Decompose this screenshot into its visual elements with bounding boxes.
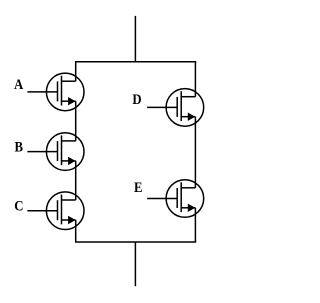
wire: bottom output lead <box>134 242 136 286</box>
wire: top supply lead <box>134 16 136 62</box>
svg-text:D: D <box>132 92 141 108</box>
svg-text:A: A <box>14 77 23 93</box>
wire: source of D to drain of E <box>194 117 196 188</box>
wire: top edge of network <box>75 61 196 63</box>
wire: source of C to bottom corner <box>75 220 77 242</box>
wire: source of A to drain of B <box>75 101 77 141</box>
svg-text:B: B <box>14 140 23 156</box>
svg-text:C: C <box>14 199 23 215</box>
transistor D (n-channel MOSFET) <box>147 89 204 127</box>
wire: bottom edge of network <box>75 241 196 243</box>
wire: left edge, top corner to drain of A <box>75 62 77 81</box>
transistor B (n-channel MOSFET) <box>27 133 84 171</box>
wire: right edge, top corner to drain of D <box>194 62 196 97</box>
wire: source of E to bottom corner <box>194 208 196 242</box>
wire: source of B to drain of C <box>75 161 77 200</box>
svg-text:E: E <box>134 180 143 196</box>
transistor A (n-channel MOSFET) <box>27 73 84 111</box>
transistor E (n-channel MOSFET) <box>147 180 204 218</box>
transistor C (n-channel MOSFET) <box>27 192 84 230</box>
